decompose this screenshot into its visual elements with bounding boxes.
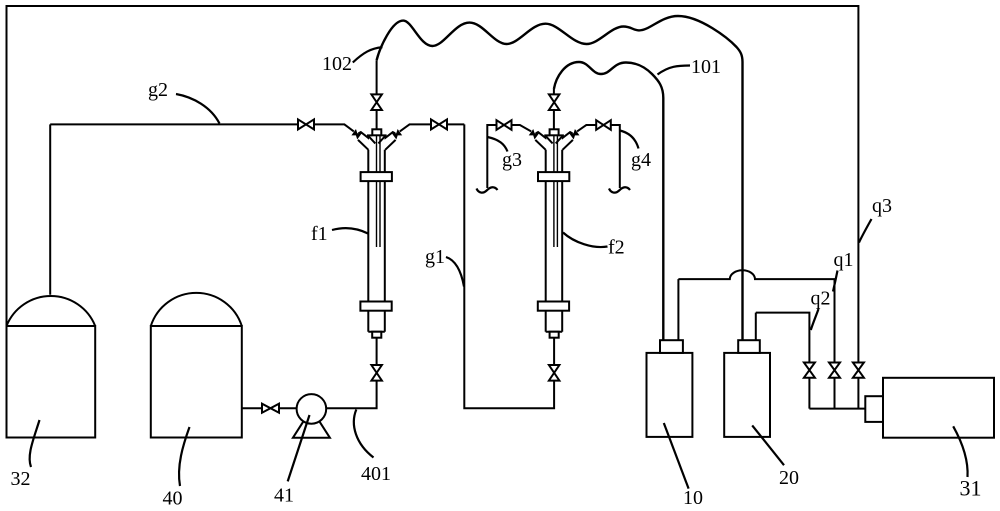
- svg-text:g1: g1: [425, 246, 445, 268]
- svg-text:401: 401: [361, 463, 391, 485]
- valve g4: [596, 120, 611, 130]
- svg-text:f1: f1: [311, 223, 328, 245]
- svg-text:32: 32: [11, 468, 31, 490]
- f1 tube walls: [368, 150, 385, 332]
- wire f1 right arm to g1: [400, 124, 465, 131]
- f2 upper flange: [538, 172, 569, 181]
- leader 401: [354, 410, 374, 458]
- vessel 10: [647, 340, 693, 437]
- wire g2 horizontal pipe: [50, 124, 354, 131]
- wire top loop pipe from tank 32 across top to q3 line: [7, 6, 859, 409]
- f2 inner channel edges: [546, 136, 563, 144]
- leader q1: [833, 271, 838, 292]
- f2 inner tube: [554, 135, 558, 247]
- leader f1: [332, 228, 368, 233]
- f2 tube walls: [546, 150, 563, 332]
- hose 101 wavy: [554, 62, 663, 340]
- squiggle g4 break: [609, 187, 630, 192]
- f2 right arm: [559, 132, 573, 150]
- svg-text:q1: q1: [834, 249, 854, 271]
- leader g2: [176, 94, 220, 124]
- leader g4: [620, 131, 639, 149]
- wire tank40 to pump pipe: [242, 407, 297, 409]
- wire g1 down-across-up: [464, 124, 554, 408]
- pump 41: [293, 394, 330, 438]
- box 31 connector: [865, 396, 883, 422]
- svg-text:g4: g4: [631, 149, 651, 171]
- valve q3: [853, 363, 864, 378]
- svg-text:f2: f2: [608, 237, 625, 259]
- svg-text:101: 101: [691, 56, 721, 78]
- f1 left arm: [358, 132, 372, 150]
- column f1: [353, 110, 400, 338]
- valve g3: [497, 120, 512, 130]
- f1 lower flange: [360, 302, 391, 311]
- svg-text:q3: q3: [872, 195, 892, 217]
- wire vessel10 second pipe to q1: [677, 279, 679, 340]
- valve q1: [829, 363, 840, 378]
- svg-text:10: 10: [683, 487, 703, 509]
- f1 inner tube: [377, 135, 381, 247]
- svg-text:g2: g2: [148, 79, 168, 101]
- f2 tiny valve left arm: [531, 131, 537, 137]
- wire pipe tank32 dome to g2: [49, 124, 51, 294]
- wire g3 pipe: [487, 125, 531, 188]
- leader g1: [446, 257, 464, 287]
- valve on g2: [298, 119, 314, 129]
- column f2: [531, 110, 578, 338]
- tank 32: [7, 296, 96, 437]
- valve f1-right g1: [431, 119, 447, 129]
- leader 40: [179, 427, 189, 486]
- wire collector to box 31: [809, 408, 865, 410]
- svg-text:g3: g3: [502, 149, 522, 171]
- f2 tiny valve right arm: [571, 131, 577, 137]
- leader 102: [353, 47, 383, 62]
- svg-text:31: 31: [960, 476, 982, 501]
- leader 10: [664, 423, 689, 489]
- f1 upper flange: [361, 172, 392, 181]
- svg-text:102: 102: [322, 53, 352, 75]
- f2 bottom nub: [550, 332, 559, 338]
- hose 102 wavy: [377, 16, 743, 340]
- leader 41: [288, 415, 310, 481]
- f2 bottom step: [546, 331, 563, 333]
- f1 bottom nub: [372, 332, 381, 338]
- svg-text:41: 41: [274, 485, 294, 507]
- f1 inner channel edges: [368, 136, 385, 144]
- f2 lower flange: [538, 302, 569, 311]
- valve f2 top: [549, 94, 560, 110]
- leader 31: [953, 426, 967, 477]
- f2 cap square: [550, 129, 559, 135]
- f2 center pipe through cap: [553, 110, 555, 135]
- wire vessel20 second pipe to q2: [755, 313, 757, 341]
- valve f1 top: [371, 94, 382, 110]
- leader 101: [658, 66, 691, 75]
- squiggle g3 break: [477, 187, 498, 192]
- valve q2: [804, 363, 815, 378]
- wire q1 pipe with crossover hump: [678, 270, 834, 408]
- leader 32: [30, 420, 40, 467]
- f1 tiny valve right arm: [394, 131, 400, 137]
- f1 tiny valve left arm: [353, 131, 359, 137]
- f2 left arm: [535, 132, 549, 150]
- leader q2: [811, 309, 819, 330]
- wire f2 valve riser: [553, 89, 555, 94]
- wire pump to f1 bottom pipe 401: [326, 338, 376, 409]
- box 31: [883, 378, 994, 438]
- leader q3: [859, 219, 872, 243]
- svg-text:q2: q2: [811, 288, 831, 310]
- wire f1 valve riser: [376, 60, 378, 94]
- leader g3: [488, 137, 508, 152]
- svg-text:40: 40: [163, 488, 183, 510]
- f1 right arm: [381, 132, 395, 150]
- valve tank40-pump: [262, 404, 279, 413]
- tank 40: [151, 293, 242, 438]
- f1 center pipe through cap: [376, 110, 378, 135]
- leader 20: [752, 425, 784, 465]
- svg-text:20: 20: [779, 467, 799, 489]
- wire q2 pipe: [756, 313, 810, 409]
- leader f2: [563, 233, 608, 248]
- vessel 20: [724, 340, 770, 437]
- valve f2 bottom: [549, 365, 560, 381]
- wire g4 pipe: [577, 125, 620, 188]
- f1 cap square: [372, 129, 381, 135]
- valve f1 bottom: [371, 365, 382, 381]
- f1 bottom step: [368, 331, 385, 333]
